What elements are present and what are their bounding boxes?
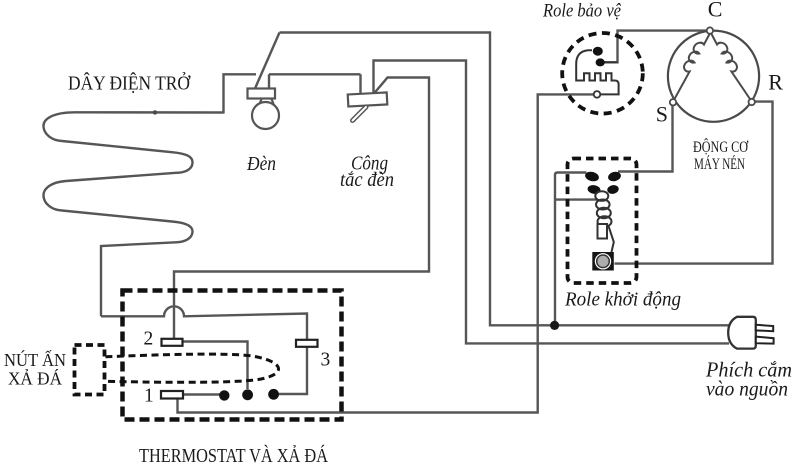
thermostat dashed box [123,291,342,420]
defrost button dashed box NÚT ẤN XẢ ĐÁ [75,345,105,395]
wire coil top to lamp [224,74,257,113]
svg-text:Role khởi động: Role khởi động [564,290,681,311]
defrost linkage dashed curve [106,354,279,382]
start relay contacts row2 [587,184,601,195]
lamp Đèn [248,89,280,130]
svg-text:THERMOSTAT VÀ XẢ ĐÁ: THERMOSTAT VÀ XẢ ĐÁ [139,445,328,467]
contact dot A [219,390,229,400]
svg-text:ĐỘNG CƠ: ĐỘNG CƠ [693,139,749,156]
svg-text:DÂY ĐIỆN TRỞ: DÂY ĐIỆN TRỞ [68,72,191,95]
motor terminal C [707,27,713,33]
wire C terminal to protection relay [604,31,707,63]
protection relay contact dots [593,47,603,56]
start relay contacts row1 [584,170,600,182]
svg-text:Role bảo vệ: Role bảo vệ [542,1,621,22]
svg-text:Đèn: Đèn [246,153,276,175]
wire terminal 1 down to protection relay [178,94,594,412]
wire terminal 2 to contact B [183,342,248,390]
wire top long run to junction and plug [280,33,730,326]
motor circle ĐỘNG CƠ MÁY NÉN [668,31,759,122]
wire S terminal down to start relay contact [618,106,673,172]
terminal pad 2 [162,339,183,346]
wire lamp to switch [269,73,361,75]
protection relay bimetal symbol [576,50,618,94]
contact dot C [268,389,279,400]
svg-text:2: 2 [144,329,154,350]
wire lamp diagonal [255,33,280,89]
svg-text:1: 1 [144,386,154,407]
start relay coil [595,191,611,227]
terminal pad 3 [296,340,318,347]
wire lamp right vertical [268,74,270,89]
svg-text:NÚT ẤN: NÚT ẤN [4,349,66,370]
wire switch left vertical [359,74,361,93]
power plug body [728,317,756,349]
svg-text:XẢ ĐÁ: XẢ ĐÁ [8,368,62,389]
wire start relay contact left down to junction [555,173,587,326]
start relay weight square [592,252,614,271]
start relay plunger [598,224,608,239]
protection relay terminal circle [594,91,601,98]
wire switch mid up and long run to plug bottom [374,61,730,344]
start relay dashed box Role khởi động [568,159,637,284]
svg-text:vào nguồn: vào nguồn [706,377,788,401]
wire terminal 1 to contact A [183,393,220,395]
motor winding right [712,34,751,99]
svg-text:R: R [768,70,783,95]
svg-text:tắc đèn: tắc đèn [340,169,394,191]
motor winding left [675,34,710,99]
svg-text:MÁY NÉN: MÁY NÉN [694,156,745,173]
plug prong upper [756,325,773,331]
wire switch diagonal to thermostat terminal 2 [174,78,429,339]
wire R terminal down to start relay square [615,102,773,264]
resistor heater coil DÂY ĐIỆN TRỞ [43,112,223,316]
junction node [550,321,559,330]
motor terminal S [670,99,676,105]
node on coil top wire [153,110,157,114]
door switch Công tắc đèn [348,92,388,120]
wire branch to start relay coil [555,198,598,200]
motor terminal R [749,99,755,105]
start relay lever [609,226,614,252]
svg-text:S: S [656,102,668,127]
protection relay dashed circle Role bảo vệ [562,33,643,114]
svg-text:C: C [708,0,723,22]
terminal pad 1 [161,391,183,399]
wire heater to terminal 3 with jump-over hump [101,306,307,394]
svg-text:3: 3 [321,350,331,371]
plug prong lower [756,337,774,344]
contact dot B [242,389,253,400]
